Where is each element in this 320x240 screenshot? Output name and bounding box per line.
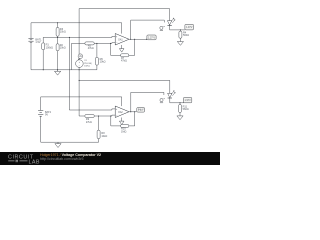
svg-text:1.97V: 1.97V bbox=[186, 26, 193, 29]
svg-text:10kΩ: 10kΩ bbox=[101, 135, 107, 138]
wire R8 bottom bbox=[98, 139, 100, 143]
wire feedback2 left leg bbox=[111, 116, 121, 126]
battery BAT1 bbox=[28, 37, 33, 39]
resistor R7 bbox=[121, 54, 129, 57]
wire R1 top bbox=[42, 37, 44, 43]
wire fn-gen bottom down to stage2 bbox=[79, 67, 85, 116]
wire LED1 to junction bbox=[170, 25, 185, 30]
svg-text:84µV: 84µV bbox=[138, 109, 144, 112]
LED D2 bbox=[168, 93, 172, 97]
wire U2 output bbox=[129, 111, 137, 113]
resistor R10 bbox=[121, 124, 129, 127]
wire R4 top bbox=[179, 30, 181, 31]
waveform bubble of V1 bbox=[78, 54, 83, 59]
svg-text:10kΩ: 10kΩ bbox=[60, 47, 66, 50]
wire U1 output bbox=[129, 38, 147, 40]
junction rail/R1 bbox=[43, 69, 44, 70]
ground G1 bbox=[57, 70, 59, 72]
wire R6 bottom bbox=[96, 65, 98, 70]
wire battery1 + to op-amp U1 V+ rail bbox=[31, 23, 122, 39]
wire feedback right leg bbox=[129, 39, 135, 55]
junction out1/feedback bbox=[134, 39, 135, 40]
svg-text:OA2: OA2 bbox=[118, 111, 123, 114]
svg-text:1kHz): 1kHz) bbox=[84, 66, 90, 68]
svg-text:10kΩ: 10kΩ bbox=[60, 31, 66, 34]
wire R3 top bbox=[57, 23, 59, 28]
resistor R9 bbox=[85, 115, 94, 118]
junction -in/R6 bbox=[96, 43, 97, 44]
svg-text:27kΩ: 27kΩ bbox=[86, 121, 92, 124]
op-amp U1 (OA1) bbox=[115, 34, 129, 46]
wire ground rail stage1 bbox=[31, 69, 97, 71]
wire R9 to U2 -in bbox=[94, 114, 115, 117]
wire node A to U1 +in bbox=[43, 36, 115, 37]
voltage label box LED2 bbox=[183, 97, 191, 102]
voltage source V1 function generator bbox=[76, 60, 84, 68]
resistor R5 bbox=[85, 42, 94, 45]
battery BAT2 bbox=[38, 109, 43, 111]
svg-text:1.5V: 1.5V bbox=[35, 41, 40, 44]
junction -in2/R8 bbox=[98, 115, 99, 116]
svg-text:LAB: LAB bbox=[29, 159, 40, 165]
wire out1 up and right to probe bbox=[131, 20, 165, 39]
junction nodeA/stage2 feed bbox=[69, 37, 70, 38]
svg-text:1.37 V: 1.37 V bbox=[148, 36, 155, 39]
wire fn-gen top to top rail bbox=[78, 9, 80, 60]
wire R4 bottom bbox=[179, 38, 181, 40]
CircuitLab logo bbox=[1, 152, 43, 165]
wire battery2 + to op-amp U2 V+ rail bbox=[41, 97, 122, 111]
resistor R8 bbox=[97, 130, 100, 138]
svg-text:10kΩ: 10kΩ bbox=[100, 61, 106, 64]
wire LED2 feed line bbox=[79, 80, 170, 93]
wire battery2 - down bbox=[40, 116, 42, 142]
junction out2/probe line bbox=[130, 111, 131, 112]
U2 negative supply arrow bbox=[121, 118, 123, 122]
ground G2 bbox=[179, 40, 181, 42]
wire R11 bottom bbox=[179, 112, 181, 114]
wire battery1 - down bbox=[30, 43, 32, 70]
svg-text:100kΩ: 100kΩ bbox=[46, 46, 53, 49]
svg-text:1.97V: 1.97V bbox=[184, 99, 191, 102]
wire node A down to U2 +in bbox=[69, 37, 115, 110]
wire R11 top bbox=[179, 103, 181, 105]
wire R1 bottom bbox=[42, 50, 44, 70]
wire R6 top bbox=[96, 43, 98, 57]
svg-text:PULSE(: PULSE( bbox=[84, 63, 92, 65]
svg-text:OA1: OA1 bbox=[118, 38, 123, 41]
wire R5 to U1 -in bbox=[94, 42, 115, 45]
probe P2 bbox=[160, 99, 163, 102]
ground G4 bbox=[179, 114, 181, 116]
wire R8 top bbox=[98, 116, 100, 130]
svg-text:V1: V1 bbox=[84, 60, 87, 62]
wire feedback2 right leg bbox=[129, 112, 135, 126]
resistor R2 bbox=[56, 44, 59, 51]
U1 negative supply arrow bbox=[121, 45, 123, 49]
junction -in2/feedback bbox=[110, 115, 111, 116]
svg-text:560Ω: 560Ω bbox=[183, 34, 189, 37]
resistor R3 bbox=[56, 28, 59, 37]
junction out1/label bbox=[146, 39, 147, 40]
junction LED2/R11 bbox=[179, 102, 180, 103]
probe P1 bbox=[160, 26, 163, 29]
wire feedback left leg bbox=[111, 43, 121, 55]
wire -in line bbox=[72, 42, 85, 44]
wire ground rail stage2 bbox=[41, 141, 99, 143]
wire -in line left end down bbox=[71, 43, 73, 69]
junction -in/feedback bbox=[110, 43, 111, 44]
junction rail/R2-ground bbox=[57, 69, 58, 70]
wire top rail bbox=[79, 9, 170, 21]
resistor R1 bbox=[42, 43, 45, 50]
net label OUT2 box bbox=[137, 108, 145, 113]
voltage label box LED1 bbox=[185, 24, 194, 30]
svg-text:47kΩ: 47kΩ bbox=[121, 60, 127, 63]
resistor R11 bbox=[179, 105, 182, 113]
junction out1/probe line bbox=[130, 39, 131, 40]
svg-text:47kΩ: 47kΩ bbox=[88, 47, 94, 50]
net label OUT1 box bbox=[147, 35, 156, 40]
wire LED2 to junction bbox=[170, 98, 184, 103]
LED D1 bbox=[167, 21, 171, 25]
wire out2 up and right to probe bbox=[131, 92, 164, 111]
op-amp U2 (OA2) bbox=[115, 106, 129, 118]
svg-text:9V: 9V bbox=[45, 114, 48, 117]
junction node A bbox=[57, 37, 58, 38]
resistor R6 bbox=[95, 57, 98, 65]
svg-text:560Ω: 560Ω bbox=[183, 108, 189, 111]
junction node VCC1/R3 bbox=[57, 22, 58, 23]
svg-text:1MΩ: 1MΩ bbox=[121, 130, 126, 133]
junction LED1/R4 bbox=[180, 29, 181, 30]
wire R3-R2 node A bbox=[57, 36, 59, 44]
junction rail/fn-gen bbox=[79, 69, 80, 70]
ground G3 bbox=[57, 142, 59, 144]
wire R2 bottom bbox=[57, 51, 59, 70]
resistor R4 bbox=[179, 31, 182, 38]
footer title text bbox=[40, 153, 101, 162]
junction out2/feedback bbox=[134, 111, 135, 112]
junction fn-gen/LED2 line bbox=[79, 80, 80, 81]
